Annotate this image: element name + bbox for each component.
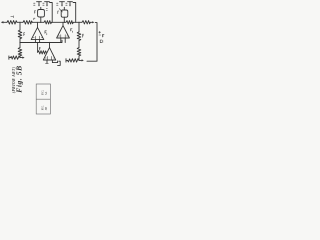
wire (52, 21, 67, 23)
node phi2 label marks (66, 3, 67, 5)
resistor R-in2 (zigzag x23-32) (23, 21, 32, 25)
wire: main top bus y=22.3 (3, 21, 7, 23)
resistor R-out (zigzag x82-90) (82, 21, 90, 24)
node label specks near A1 (45, 31, 47, 35)
capacitor Ca1 (block1 left, top bar + lead + arrow) (37, 1, 42, 3)
node phi1 label marks (34, 3, 35, 5)
wire (32, 21, 44, 23)
node A1 input marks (35, 36, 39, 39)
node phi1 label marks (57, 3, 58, 5)
resistor chain 2: wire from top bus down (78, 22, 80, 32)
component box U1 (capsule) (38, 10, 45, 18)
resistor R3 (feed into A3, horizontal) (37, 43, 39, 53)
wire: A2 leads to lower bus (60, 38, 62, 43)
wire: box2 to top bus (63, 17, 65, 22)
capacitor Ca2 (block1 right) (45, 1, 50, 3)
node: left input arrow (1, 21, 4, 23)
capacitor Cb2 (block2 right) (68, 1, 73, 3)
node: output arrow on top wire (92, 21, 94, 23)
node sheet-key box (36, 84, 50, 114)
wire: A3 left lead down (46, 60, 48, 63)
op-amp A3 (triangle pointing up) (43, 48, 55, 60)
resistor R1b (vertical zigzag) (18, 48, 22, 56)
node A3 input marks (48, 56, 52, 60)
node R1a label (24, 33, 25, 36)
wire (73, 21, 82, 23)
op-amp A2 (triangle pointing up) (57, 26, 70, 38)
wire: lower bus y=42.5 (20, 40, 62, 42)
wire: A1 leads to lower bus (34, 40, 36, 43)
node wiper arrow (79, 59, 82, 61)
node terminal bar (65, 59, 67, 62)
node C label right of U1 (46, 9, 47, 11)
node diagonal mark on U2 (59, 9, 62, 12)
resistor R-mid2 (zigzag x66-73) (66, 21, 73, 24)
wire: A2 output to top bus (62, 22, 64, 25)
node A2 input marks (61, 35, 65, 38)
node wiper arrow (20, 57, 23, 59)
wire: A3 right lead to hook (52, 60, 57, 63)
node R label left of U2 (58, 11, 59, 14)
wire (78, 41, 80, 48)
svg-text:5B: 5B (45, 107, 48, 110)
resistor R-mid1 (zigzag x44-51.5) (44, 21, 52, 24)
wire: feed into box2 (63, 7, 65, 10)
node hook bracket (58, 61, 61, 65)
node R3 label (39, 47, 40, 50)
wire to output arrow (90, 21, 92, 23)
wire (17, 21, 23, 23)
wire: feed into box1 (40, 7, 42, 9)
node R2a label (83, 34, 84, 37)
capacitor C-fb2 (right branch of block2) (73, 3, 76, 23)
resistor R1c (horizontal at bottom) (10, 56, 20, 59)
resistor chain 1: wire from top bus down (19, 22, 21, 30)
wire: right vertical rail (87, 23, 97, 62)
capacitor C-fb1 (right branch of block1) (50, 3, 53, 23)
node phi2 label marks (43, 3, 44, 5)
component box U2 (capsule) (61, 10, 68, 17)
wire (19, 56, 21, 58)
wire: A3 output up to lower bus (49, 43, 51, 48)
svg-text:5A: 5A (45, 92, 48, 95)
node R label left of U1 (35, 11, 36, 14)
node rail labels (+2.5V marks) (99, 31, 104, 42)
svg-text:(PRIOR ART): (PRIOR ART) (12, 67, 16, 94)
wire (78, 56, 80, 61)
node label speck above input resistor (11, 16, 14, 18)
resistor R2b (vertical zigzag) (77, 48, 81, 56)
svg-text:Fig. 5B: Fig. 5B (15, 65, 24, 92)
node terminal bar (8, 56, 10, 59)
resistor R2c (horizontal at bottom) (68, 59, 79, 62)
node label speck above wire x34 (34, 18, 35, 20)
op-amp A1 (triangle pointing up) (31, 27, 44, 39)
wire (19, 39, 21, 48)
capacitor Cb1 (block2 left) (60, 1, 65, 3)
wire: box1 to top bus (40, 17, 42, 22)
node label specks near A2 (71, 29, 73, 33)
resistor R2a (vertical zigzag) (77, 32, 81, 41)
resistor R1a (vertical zigzag) (18, 30, 22, 39)
resistor R-in1 (zigzag x7-17 on top wire) (7, 21, 17, 25)
wire: A1 output to top bus (37, 22, 39, 27)
